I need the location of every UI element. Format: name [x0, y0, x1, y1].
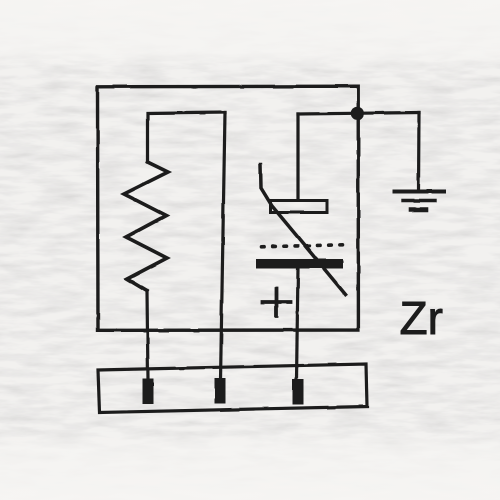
light scan fade top [0, 0, 500, 70]
wire right branch to pin 2 [221, 113, 226, 381]
outer case box [98, 86, 359, 330]
resistor R top lead / inner loop top edge [148, 113, 226, 163]
ground lead [417, 113, 421, 192]
capacitor C top lead [296, 114, 299, 200]
resistor R bottom lead to pin 1 [147, 291, 148, 380]
pin 1 [143, 379, 154, 405]
pin 3 [293, 379, 304, 405]
resistor R zigzag [124, 162, 168, 291]
svg-text:Zr: Zr [400, 292, 443, 344]
light scan fade bottom [0, 428, 500, 500]
wire top horizontal to ground [298, 113, 419, 115]
ground symbol [394, 190, 444, 194]
junction node dot [351, 107, 364, 120]
connector strip [98, 364, 367, 413]
plus sign [263, 289, 291, 317]
dielectric dashed line [262, 245, 344, 247]
capacitor C top plate (hollow) [271, 201, 328, 213]
capacitor C bottom lead to pin 3 [297, 268, 299, 380]
variable slash through capacitor [261, 165, 346, 295]
capacitor C bottom plate (solid) [256, 259, 343, 269]
pin 2 [215, 378, 226, 404]
